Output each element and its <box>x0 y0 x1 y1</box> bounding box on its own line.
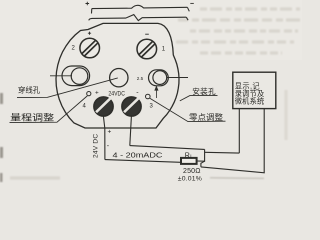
terminal screw 4 (bottom-left) <box>94 97 113 116</box>
svg-text:微机系统: 微机系统 <box>235 96 265 105</box>
svg-text:L: L <box>190 155 193 161</box>
paper background <box>0 0 302 183</box>
svg-text:2.5: 2.5 <box>137 76 144 81</box>
leader: zero adjust label <box>150 98 226 121</box>
svg-text:+: + <box>108 129 112 136</box>
wire bottom return to display box <box>201 109 264 173</box>
svg-text:+: + <box>95 90 99 97</box>
terminal screw 3 (bottom-right) <box>122 97 141 116</box>
wire end hook right <box>187 7 189 11</box>
polarity + (cable) <box>86 2 90 6</box>
span potentiometer (left) <box>87 92 91 96</box>
cable wire - (lower conductor with crossover) <box>89 15 187 21</box>
svg-text:穿线孔: 穿线孔 <box>18 86 41 95</box>
svg-text:24V DC: 24V DC <box>93 134 100 158</box>
text elements <box>10 46 264 183</box>
wire rail A (+) to resistor <box>105 160 181 163</box>
mounting slot right <box>149 70 189 86</box>
wire end tick left <box>91 9 93 14</box>
polarity - (cable) <box>190 2 194 4</box>
wire node to display box left <box>205 151 239 154</box>
svg-text:4 - 20mADC: 4 - 20mADC <box>113 151 164 160</box>
edge smudges (decorative) <box>0 93 3 182</box>
faint bleed-through texture (decorative) <box>10 9 300 178</box>
svg-text:±0.01%: ±0.01% <box>178 175 202 182</box>
load resistor RL <box>181 158 197 164</box>
svg-text:24VDC: 24VDC <box>108 91 125 98</box>
cable entry hole (center) <box>110 69 128 87</box>
transmitter enclosure outline <box>56 23 179 128</box>
cable wire + (top conductor) <box>92 5 188 8</box>
display system box <box>233 72 276 108</box>
mounting slot left <box>50 66 90 86</box>
svg-text:安装孔: 安装孔 <box>192 86 216 96</box>
svg-text:零点调整: 零点调整 <box>189 112 223 122</box>
leader: span adjust label <box>10 96 88 123</box>
dimension arrow at right slot <box>155 87 158 99</box>
terminal screw 1 (top-right) <box>137 39 157 59</box>
wire resistor right to bottom node <box>201 161 205 167</box>
wire rail B (-) <box>130 146 205 150</box>
zero potentiometer (right) <box>146 94 151 99</box>
terminal screw 2 (top-left) <box>80 38 100 58</box>
wire from screw 4 down <box>103 116 105 159</box>
polarity - above screw 1 <box>145 33 149 35</box>
wire end hook right lower <box>186 17 188 20</box>
svg-text:量程调整: 量程调整 <box>10 111 54 122</box>
wire display box left vertical <box>238 109 240 153</box>
svg-text:250Ω: 250Ω <box>183 168 201 175</box>
wire stub to resistor right <box>197 149 205 161</box>
svg-text:R: R <box>185 153 190 160</box>
leader: mounting hole label right <box>180 95 218 101</box>
polarity + above screw 2 <box>88 32 91 35</box>
leader: cable hole label <box>17 78 118 98</box>
wire from screw 3 down <box>130 116 132 145</box>
